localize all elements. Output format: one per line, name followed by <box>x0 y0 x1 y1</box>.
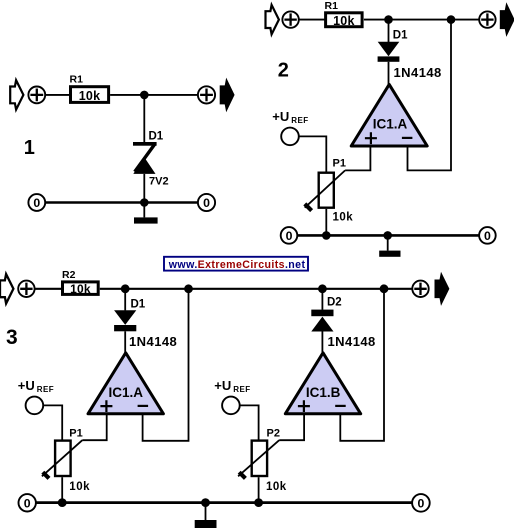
svg-text:+UREF: +UREF <box>18 378 54 394</box>
node feedback B tap (circuit 3) <box>380 284 389 293</box>
node P1 on rail (circuit 3) <box>58 498 67 507</box>
input + terminal (circuit 2) <box>282 11 298 27</box>
wire zener to rail <box>143 174 145 203</box>
left 0 terminal (circuit 3) <box>19 494 36 511</box>
svg-text:0: 0 <box>203 196 210 210</box>
op-amp IC1.A (circuit 3) <box>88 353 163 414</box>
svg-text:10k: 10k <box>69 481 90 493</box>
website label box <box>164 257 308 271</box>
node D1 tap (circuit 3) <box>121 284 130 293</box>
svg-text:10k: 10k <box>333 14 354 28</box>
wire input to R1 <box>45 94 70 96</box>
svg-text:1: 1 <box>24 137 35 159</box>
resistor R2 <box>62 269 98 296</box>
svg-text:P1: P1 <box>69 428 82 440</box>
wire diode to op-amp (circuit 2) <box>388 62 390 86</box>
svg-text:10k: 10k <box>333 212 354 224</box>
output arrow (circuit 2) <box>501 5 514 35</box>
svg-text:1N4148: 1N4148 <box>129 334 177 349</box>
svg-text:7V2: 7V2 <box>149 176 169 188</box>
wire R1 to output <box>110 94 198 96</box>
svg-text:D1: D1 <box>131 299 146 311</box>
svg-text:0: 0 <box>484 229 491 243</box>
output arrow (circuit 3) <box>435 274 448 304</box>
node feedback tap (circuit 2) <box>447 15 456 24</box>
wire P1 bottom to rail (circuit 3) <box>61 477 63 502</box>
output + terminal (circuit 3) <box>412 281 428 297</box>
input + terminal (circuit 3) <box>18 281 34 297</box>
potentiometer P1 (circuit 2) <box>305 170 345 210</box>
svg-text:+UREF: +UREF <box>214 378 250 394</box>
U REF terminal circle B (circuit 3) <box>222 397 240 415</box>
ground (circuit 1) <box>134 203 158 224</box>
right 0 terminal (circuit 3) <box>412 494 430 512</box>
wire node to diode D1 (circuit 3) <box>124 289 126 311</box>
svg-text:www.ExtremeCircuits.net: www.ExtremeCircuits.net <box>168 259 306 271</box>
bottom rail (circuit 2) <box>297 234 479 237</box>
node (circuit 1 bottom) <box>140 198 149 207</box>
wire op-amp A + input to P1 wiper (circuit 3) <box>82 414 106 440</box>
svg-text:D1: D1 <box>149 131 164 143</box>
svg-text:R1: R1 <box>325 0 339 12</box>
wire op-amp B + input to P2 wiper (circuit 3) <box>279 414 304 440</box>
output + terminal (circuit 2) <box>479 11 495 27</box>
wire node down to zener <box>143 95 145 142</box>
zener diode D1 (circuit 1) <box>133 142 157 174</box>
svg-text:0: 0 <box>33 196 40 210</box>
left 0 terminal (circuit 1) <box>28 194 45 211</box>
input terminal arrow (circuit 2) <box>266 5 279 34</box>
wire op-amp B - input feedback to top rail (circuit 3) <box>340 289 384 441</box>
svg-text:10k: 10k <box>266 481 287 493</box>
diode D1 (circuit 3) <box>114 310 136 331</box>
resistor R1 (circuit 1) <box>70 74 109 104</box>
wire U REF B to P2 top (circuit 3) <box>240 405 259 440</box>
svg-text:IC1.B: IC1.B <box>306 385 341 400</box>
wire input to R2 <box>35 288 63 290</box>
output + terminal (circuit 1) <box>198 86 215 103</box>
node P1 on rail (circuit 2) <box>322 231 331 240</box>
bottom rail (circuit 3) <box>36 501 413 504</box>
wire node to diode D2 (circuit 3) <box>321 289 323 310</box>
svg-text:1N4148: 1N4148 <box>394 65 442 80</box>
U REF terminal circle (circuit 2) <box>281 128 299 146</box>
node D2 tap (circuit 3) <box>318 284 327 293</box>
right 0 terminal (circuit 2) <box>479 227 496 244</box>
svg-text:0: 0 <box>286 229 293 243</box>
svg-text:D2: D2 <box>327 297 342 309</box>
wire P2 bottom to rail (circuit 3) <box>258 477 260 503</box>
node ground tap on rail (circuit 3) <box>201 498 210 507</box>
wire U REF to P1 top (circuit 2) <box>299 136 327 172</box>
op-amp IC1.B (circuit 3) <box>285 353 360 414</box>
svg-text:IC1.A: IC1.A <box>109 385 144 400</box>
svg-text:1N4148: 1N4148 <box>328 334 376 349</box>
svg-text:D1: D1 <box>393 30 408 42</box>
wire node to diode D1 (circuit 2) <box>388 20 390 42</box>
svg-text:10k: 10k <box>79 89 100 103</box>
node ground tap on rail (circuit 2) <box>383 231 392 240</box>
svg-text:10k: 10k <box>70 282 91 296</box>
wire D2 to op-amp B (circuit 3) <box>321 332 323 355</box>
wire U REF A to P1 top (circuit 3) <box>43 405 62 440</box>
output arrow (circuit 1) <box>220 80 233 110</box>
potentiometer P2 (circuit 3) <box>238 440 279 478</box>
input + terminal (circuit 1) <box>28 87 45 104</box>
svg-text:P1: P1 <box>333 158 346 170</box>
top rail wire (circuit 2) <box>364 19 479 21</box>
left 0 terminal (circuit 2) <box>281 227 298 244</box>
diode D2 (circuit 3) <box>311 310 333 332</box>
svg-text:IC1.A: IC1.A <box>373 117 408 132</box>
wire op-amp A - input feedback to top rail (circuit 3) <box>143 289 189 441</box>
U REF terminal circle A (circuit 3) <box>26 397 44 415</box>
svg-text:2: 2 <box>278 59 289 81</box>
right 0 terminal (circuit 1) <box>198 194 215 211</box>
svg-text:+UREF: +UREF <box>272 109 308 125</box>
svg-text:P2: P2 <box>267 428 280 440</box>
wire input to R1 (circuit 2) <box>299 19 326 21</box>
node feedback A tap (circuit 3) <box>184 284 193 293</box>
svg-text:0: 0 <box>24 496 31 510</box>
ground (circuit 2) <box>379 235 400 256</box>
node (circuit 1 top) <box>140 91 149 100</box>
input terminal arrow (circuit 3) <box>0 274 13 303</box>
diode D1 (circuit 2) <box>378 42 400 62</box>
ground (circuit 3) <box>195 503 217 528</box>
top rail (circuit 3) <box>100 288 413 290</box>
op-amp IC1.A (circuit 2) <box>351 84 427 146</box>
wire P1 bottom to rail (circuit 2) <box>325 209 327 236</box>
node diode tap (circuit 2) <box>384 15 393 24</box>
wire op-amp + input to P1 wiper (circuit 2) <box>345 146 370 170</box>
svg-text:0: 0 <box>417 496 424 510</box>
node P2 on rail (circuit 3) <box>254 498 263 507</box>
input terminal arrow (circuit 1) <box>10 80 23 109</box>
bottom rail (circuit 1) <box>45 201 198 204</box>
wire D1 to op-amp A (circuit 3) <box>124 331 126 354</box>
svg-text:R1: R1 <box>70 74 84 86</box>
svg-text:R2: R2 <box>62 269 76 281</box>
resistor R1 (circuit 2) <box>325 0 363 28</box>
svg-text:3: 3 <box>6 326 18 349</box>
wire op-amp - input feedback to top rail (circuit 2) <box>408 20 452 171</box>
potentiometer P1 (circuit 3) <box>42 440 82 478</box>
